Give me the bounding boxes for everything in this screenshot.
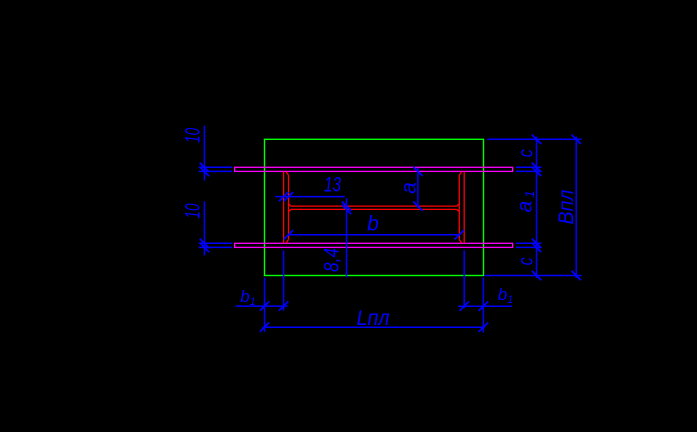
dimension b ticks xyxy=(284,230,464,239)
extension line left rib down xyxy=(283,250,285,310)
dimension 10 top-left dimension line xyxy=(203,126,205,181)
dimension b1 left ticks xyxy=(260,301,289,310)
dimension Lpl ticks xyxy=(260,323,488,332)
svg-text:Lпл: Lпл xyxy=(357,307,390,330)
dimension 8,4 ticks xyxy=(342,201,351,214)
dimension 10 top-left extension lines xyxy=(199,167,233,171)
svg-text:10: 10 xyxy=(182,128,205,143)
dimension b1 right dimension line xyxy=(458,305,512,307)
extension line right rib down xyxy=(463,250,465,308)
dimension b1 left dimension line xyxy=(236,305,288,307)
extension line panel left edge down xyxy=(264,278,266,332)
panel outline (green) xyxy=(265,139,484,275)
dimension 13 ticks xyxy=(279,192,293,201)
dimension 10 bottom-left dimension line xyxy=(203,201,205,255)
extension line green top edge to right xyxy=(487,138,581,140)
bottom chord plate (magenta) xyxy=(235,243,513,247)
extension lines top plate right xyxy=(516,167,542,171)
svg-text:c: c xyxy=(515,257,538,265)
ticks Bpl xyxy=(572,135,581,281)
dimension a dimension line xyxy=(417,168,419,208)
dimension a ticks xyxy=(413,167,422,211)
svg-text:b1: b1 xyxy=(498,285,514,306)
svg-text:c: c xyxy=(515,149,538,157)
svg-text:10: 10 xyxy=(182,203,205,218)
dimension 13 dimension line xyxy=(275,196,345,198)
svg-text:Впл: Впл xyxy=(555,189,578,224)
extension line panel right edge down xyxy=(482,278,484,333)
dimension line c / a1 / c (inner right) xyxy=(536,137,538,278)
dimension 10 bottom-left ticks xyxy=(200,239,209,253)
extension lines bottom plate right xyxy=(516,243,542,247)
top chord plate (magenta) xyxy=(235,167,513,171)
svg-text:b1: b1 xyxy=(240,287,256,308)
dimension 10 top-left ticks xyxy=(200,163,209,177)
svg-text:b: b xyxy=(367,213,379,236)
right rib (red) xyxy=(459,172,464,244)
extension line green bottom edge to right xyxy=(484,275,581,277)
svg-text:13: 13 xyxy=(324,174,341,197)
dimension 8,4 dimension line xyxy=(346,198,348,277)
left rib (red) xyxy=(284,172,289,244)
svg-text:a1: a1 xyxy=(514,191,538,213)
svg-text:a: a xyxy=(398,182,421,194)
dimension b1 right ticks xyxy=(460,302,489,311)
dimension b dimension line xyxy=(289,234,460,236)
dimension line Bpl (outer right) xyxy=(575,137,577,278)
ticks inner right line xyxy=(532,135,541,281)
svg-text:8,4: 8,4 xyxy=(321,248,344,272)
middle rib (red) xyxy=(289,204,459,212)
dimension Lpl dimension line xyxy=(263,326,485,328)
dimension 10 bottom-left extension lines xyxy=(199,243,233,247)
